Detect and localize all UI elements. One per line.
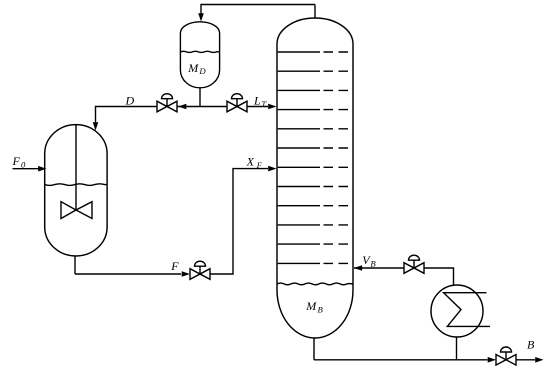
wire D line [96,107,158,123]
wire reflux header right [200,106,227,108]
distillation column vessel [277,18,353,338]
tray 10 [278,224,348,226]
reactor liquid level [45,184,107,186]
wire drum bottom stem [199,88,201,107]
tray 12 [278,262,348,264]
svg-text:B: B [527,338,535,352]
svg-text:B: B [370,259,376,269]
svg-text:M: M [305,299,317,313]
label F [170,259,179,273]
reboiler coil [444,293,490,327]
wire overhead vapor line [201,5,315,15]
svg-text:F: F [12,154,21,168]
wire column bottom stem [313,338,315,360]
tray 4 [278,109,348,111]
arrow VB into column [354,265,362,271]
tray 2 [278,70,348,72]
label D [125,93,135,107]
wire column top stem [314,5,316,19]
valve V1 distillate D [157,94,177,112]
label X_F [246,154,263,170]
tray 7 [278,166,348,168]
tray 8 [278,186,348,188]
wire reboiler bottom stem [456,337,458,360]
arrow XF into column [268,166,276,172]
arrow B outlet [535,357,543,363]
svg-text:F: F [256,160,263,170]
svg-text:0: 0 [21,160,26,170]
valve V4 boilup VB [404,255,424,273]
wire LT line to column [247,106,268,108]
wire VB to reboiler [424,268,454,285]
tray 9 [278,205,348,207]
label M_D [187,61,206,76]
wire feed riser [210,169,268,274]
wire B line [314,359,488,361]
svg-text:F: F [170,259,179,273]
label F_0 [12,154,27,170]
svg-text:T: T [261,99,267,109]
tray 3 [278,89,348,91]
agitator impeller [61,202,92,219]
svg-text:B: B [318,305,324,315]
reflux drum MD [180,22,219,88]
svg-text:D: D [125,93,135,107]
svg-text:X: X [246,154,255,168]
svg-text:D: D [198,66,206,76]
drum liquid level [180,51,219,52]
wire B outlet [516,359,535,361]
tray 1 [278,51,348,53]
label M_B [305,299,323,315]
reboiler heat exchanger U1 [431,285,483,337]
valve V2 reflux LT [227,94,247,112]
wire reactor bottom stem [74,256,76,275]
tray 11 [278,243,348,245]
arrow F to valve [182,271,190,277]
tray 6 [278,147,348,149]
arrow LT into column [268,104,276,110]
label V_B [362,253,376,269]
svg-text:M: M [187,61,199,75]
valve V3 feed F [190,261,210,279]
wire reflux header left [178,106,201,108]
label B [527,338,535,352]
arrow into reflux drum [198,13,204,21]
valve V5 bottoms B [496,347,516,365]
arrow to valve V1 [178,104,186,110]
arrow D into reactor [93,122,99,130]
label L_T [253,93,267,109]
wire F0 feed line [13,168,39,170]
agitator shaft [75,125,77,210]
svg-text:L: L [253,93,261,107]
reactor vessel [45,125,107,256]
tray 5 [278,128,348,130]
arrow F0 into reactor [38,166,46,172]
column liquid level [277,283,353,285]
wire F line [75,273,181,275]
arrow B to valve [488,357,496,363]
wire VB line [354,267,404,269]
